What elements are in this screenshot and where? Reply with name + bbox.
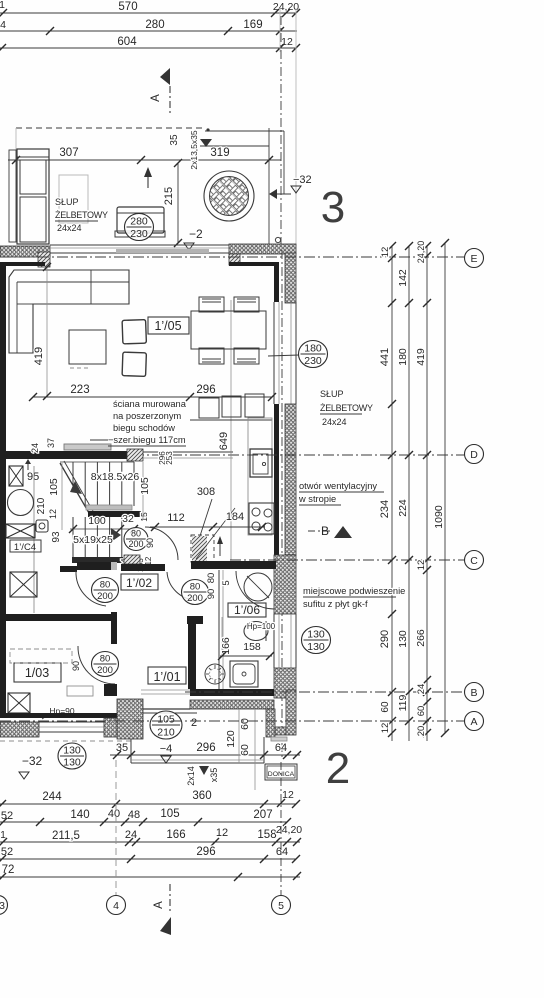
left wall — [0, 264, 6, 715]
svg-text:158: 158 — [257, 829, 276, 841]
dining chair top-left — [199, 297, 224, 312]
terrace pier bottom hatch — [275, 727, 286, 735]
svg-text:2: 2 — [191, 717, 197, 729]
right wall mid inner leaf — [274, 404, 279, 555]
kitchen cooktop — [249, 503, 274, 534]
svg-text:64: 64 — [276, 846, 288, 858]
dining table — [191, 311, 266, 349]
dim chain 280 169 — [0, 30, 297, 32]
drain circle corner — [275, 237, 280, 242]
svg-text:419: 419 — [33, 347, 45, 365]
terrace door size 105/210 — [150, 711, 182, 739]
svg-text:3: 3 — [0, 900, 5, 912]
bottom wall hatch band right — [190, 700, 274, 709]
hall top wall right piece — [121, 564, 165, 571]
svg-text:105: 105 — [48, 478, 60, 496]
svg-text:234: 234 — [379, 500, 391, 518]
svg-text:210: 210 — [157, 727, 175, 739]
dim column 142 180 224 130 119 — [408, 246, 410, 741]
svg-text:296: 296 — [196, 384, 215, 396]
svg-text:4: 4 — [0, 19, 6, 31]
svg-text:52: 52 — [1, 810, 13, 822]
dim column 24 20 419 12 266 24 60 20 — [426, 246, 428, 741]
stair direction arrow upper — [70, 481, 82, 494]
hall top wall mid piece — [77, 562, 111, 570]
svg-text:24x24: 24x24 — [57, 223, 82, 233]
svg-text:95: 95 — [27, 471, 39, 483]
hall right wall — [188, 624, 196, 689]
door circle 80/200 stairs — [124, 528, 148, 551]
svg-text:207: 207 — [253, 809, 272, 821]
bottom wall hatch left — [0, 722, 39, 737]
terrace door threshold lines — [141, 689, 190, 691]
svg-text:8x18.5x26: 8x18.5x26 — [91, 471, 140, 483]
svg-text:B: B — [321, 524, 329, 538]
arrow terrace right — [269, 189, 277, 199]
svg-text:604: 604 — [117, 36, 137, 48]
terrace pier inner hatch — [266, 709, 275, 737]
svg-text:80: 80 — [131, 529, 141, 539]
dim line 223 296 — [33, 396, 272, 398]
stair direction arrow lower — [111, 528, 121, 542]
grid 5 axis lower — [280, 762, 282, 895]
grid B axis — [185, 691, 464, 693]
svg-text:130: 130 — [307, 629, 325, 641]
svg-text:158: 158 — [243, 641, 261, 653]
xbox 1/03 — [8, 693, 30, 713]
dim 166 — [221, 617, 223, 655]
svg-text:24,20: 24,20 — [416, 241, 426, 264]
svg-text:200: 200 — [97, 591, 113, 602]
coffee table — [69, 330, 106, 364]
svg-text:12: 12 — [416, 560, 427, 571]
grid bubble A — [465, 712, 484, 731]
svg-text:Hp=100: Hp=100 — [247, 622, 276, 631]
svg-text:119: 119 — [397, 694, 409, 711]
grid bubble 3 partial — [0, 896, 8, 915]
terrace dim line bottom — [110, 754, 300, 756]
grid D axis — [0, 454, 464, 456]
svg-text:A: A — [470, 716, 477, 728]
svg-text:93: 93 — [51, 531, 62, 543]
room 1/03 right wall lower — [104, 684, 117, 696]
svg-text:169: 169 — [243, 19, 262, 31]
section marker A top — [160, 68, 170, 85]
svg-text:3: 3 — [321, 183, 345, 232]
svg-text:360: 360 — [192, 790, 211, 802]
door arc stairs — [145, 527, 178, 560]
svg-text:−szer.biegu 117cm: −szer.biegu 117cm — [108, 435, 186, 445]
right wall bath window — [273, 614, 275, 668]
room label 1'/02 — [121, 574, 158, 590]
radiator 1/03 — [67, 686, 93, 696]
door arc 1'02 left — [76, 571, 106, 606]
dim chain 604 12 — [0, 47, 297, 49]
grid bubble C — [465, 551, 484, 570]
svg-text:biegu schodów: biegu schodów — [113, 423, 175, 433]
svg-text:80: 80 — [206, 573, 217, 584]
svg-text:180: 180 — [397, 348, 409, 366]
svg-text:90: 90 — [206, 589, 217, 600]
room label 1'/01 — [148, 667, 186, 684]
svg-text:12: 12 — [380, 247, 391, 258]
svg-text:35: 35 — [169, 134, 180, 146]
stair wall — [0, 451, 127, 459]
svg-text:2x14: 2x14 — [186, 766, 196, 786]
grid 4 axis lower — [115, 760, 117, 895]
svg-text:266: 266 — [415, 629, 427, 647]
svg-text:90: 90 — [71, 661, 81, 671]
top wall right pier hatched — [229, 244, 296, 254]
svg-text:253: 253 — [165, 451, 174, 465]
kitchen unit xbox mid — [6, 524, 35, 538]
svg-text:296: 296 — [196, 742, 215, 754]
svg-text:−4: −4 — [160, 743, 173, 755]
grid E axis — [0, 256, 464, 258]
svg-text:105: 105 — [160, 808, 179, 820]
bottom wall hatch mid — [104, 718, 121, 737]
sofa corner — [9, 270, 129, 353]
svg-text:215: 215 — [163, 187, 175, 205]
room 1/03 top wall — [0, 614, 111, 621]
svg-text:1090: 1090 — [433, 505, 445, 529]
door circle 80/200 c — [92, 652, 119, 677]
svg-text:SŁUP: SŁUP — [55, 197, 79, 207]
svg-text:308: 308 — [197, 486, 215, 498]
grid bubble 5 — [272, 896, 291, 915]
bath left wall lines — [218, 570, 220, 695]
kitchen counter right — [248, 418, 272, 535]
room label 1/03 — [14, 663, 61, 682]
kitchen sink round — [8, 490, 34, 516]
column outline — [59, 175, 88, 223]
svg-text:1’/05: 1’/05 — [154, 319, 181, 333]
svg-text:12: 12 — [216, 827, 228, 839]
top wall left pier corner block — [38, 252, 50, 267]
grid C axis — [230, 559, 464, 561]
svg-text:5: 5 — [278, 900, 284, 912]
svg-text:80: 80 — [100, 654, 111, 665]
svg-text:105: 105 — [157, 714, 175, 726]
svg-text:otwór wentylacyjny: otwór wentylacyjny — [299, 481, 377, 491]
svg-text:12: 12 — [48, 509, 58, 519]
bottom wall inner black — [0, 713, 121, 718]
dim column 1090 — [444, 243, 446, 733]
svg-text:5: 5 — [221, 580, 232, 585]
svg-text:12: 12 — [281, 36, 293, 48]
dim chain 211,5 24 166 12 158 24 20 — [0, 841, 300, 843]
svg-text:290: 290 — [379, 630, 391, 648]
dining chair bottom-right — [234, 348, 259, 364]
svg-text:280: 280 — [130, 216, 148, 228]
door size 280/230 — [125, 214, 154, 241]
svg-text:120: 120 — [225, 730, 237, 748]
stair dim line 100 32 — [70, 528, 137, 530]
svg-text:130: 130 — [307, 641, 325, 653]
dim column 441 234 290 — [391, 246, 393, 741]
svg-text:60: 60 — [239, 718, 251, 730]
svg-text:296: 296 — [196, 846, 215, 858]
svg-text:na poszerzonym: na poszerzonym — [113, 411, 181, 421]
svg-text:319: 319 — [210, 147, 229, 159]
svg-text:200: 200 — [97, 665, 113, 676]
hall bottom wall — [190, 689, 274, 696]
svg-text:419: 419 — [415, 348, 427, 366]
svg-text:230: 230 — [304, 355, 322, 367]
kitchen unit xbox low — [10, 572, 37, 597]
grid bubble E — [465, 249, 484, 268]
svg-text:15: 15 — [139, 512, 149, 522]
kitchen unit xbox top — [9, 466, 23, 486]
hatch block above 1'02 — [124, 555, 140, 564]
terrace right boundary — [268, 128, 270, 246]
dim 649 line — [230, 300, 232, 560]
svg-text:52: 52 — [1, 846, 13, 858]
wc — [230, 661, 258, 687]
top wall left pier hatched — [0, 246, 50, 257]
door arc bath — [167, 572, 196, 600]
door circle 80/200 a — [92, 578, 119, 603]
window sill bar gray — [116, 249, 209, 253]
dim chain 52 140 40 48 105 207 — [0, 821, 287, 823]
svg-text:223: 223 — [70, 384, 89, 396]
pillow 1 — [122, 320, 146, 344]
svg-text:ŻELBETOWY: ŻELBETOWY — [320, 403, 373, 413]
pillow 2 — [122, 352, 146, 376]
hall top wall left piece — [60, 566, 77, 572]
svg-text:1’/06: 1’/06 — [234, 603, 260, 617]
svg-text:142: 142 — [397, 269, 409, 287]
svg-text:w stropie: w stropie — [298, 494, 336, 504]
svg-text:72: 72 — [2, 864, 15, 876]
svg-text:307: 307 — [59, 147, 78, 159]
room label 1'/06 — [228, 603, 266, 617]
stair wall thin extension — [143, 451, 233, 453]
svg-text:2x13,5x35: 2x13,5x35 — [189, 130, 199, 169]
svg-text:570: 570 — [118, 1, 137, 13]
grid 5 axis dash-dot upper — [280, 16, 282, 248]
svg-text:1’/C4: 1’/C4 — [14, 542, 36, 553]
stair cut diagonal — [60, 463, 89, 513]
top wall window — [50, 244, 229, 246]
svg-text:−2: −2 — [189, 227, 203, 241]
svg-text:1: 1 — [0, 0, 5, 11]
svg-text:24: 24 — [416, 684, 427, 695]
section marker A bottom — [169, 884, 171, 914]
hall right wall top L — [187, 616, 203, 624]
svg-text:ŻELBETOWY: ŻELBETOWY — [55, 210, 108, 220]
right wall bottom pier — [274, 668, 296, 698]
kitchen sink unit — [250, 449, 272, 477]
svg-text:90: 90 — [145, 538, 155, 548]
svg-text:x35: x35 — [209, 768, 219, 783]
svg-text:−32: −32 — [293, 174, 312, 186]
svg-text:200: 200 — [187, 593, 203, 604]
svg-text:C: C — [470, 555, 478, 567]
stair upper treads — [72, 462, 74, 506]
right wall axis dashes — [281, 250, 283, 758]
washer circle — [205, 664, 225, 684]
right wall bath pier — [274, 555, 296, 614]
grid bubble D — [465, 445, 484, 464]
stair dim 105 right — [142, 462, 144, 520]
svg-text:A: A — [153, 901, 165, 909]
svg-text:20: 20 — [416, 726, 427, 737]
door circle 80/200 b — [182, 580, 209, 605]
room 1/03 right wall upper — [111, 612, 117, 644]
svg-text:E: E — [470, 253, 477, 265]
svg-text:D: D — [470, 449, 478, 461]
svg-text:140: 140 — [70, 809, 89, 821]
right wall window 180/230 — [273, 302, 275, 404]
wardrobe dashed — [10, 649, 72, 663]
svg-text:60: 60 — [416, 706, 427, 717]
dim chain 244 360 12 — [0, 803, 296, 805]
svg-text:1’/02: 1’/02 — [126, 576, 152, 590]
guide line right x296 — [295, 8, 297, 246]
terrace corner hatch left — [117, 699, 143, 739]
svg-text:210: 210 — [36, 497, 47, 514]
donica planter — [265, 764, 297, 780]
dim 419 — [46, 267, 48, 396]
terrace dim line 307 319 — [8, 159, 281, 161]
svg-text:12: 12 — [380, 723, 391, 734]
svg-text:649: 649 — [218, 432, 230, 450]
grid bubble B — [465, 683, 484, 702]
svg-text:64: 64 — [275, 742, 287, 754]
svg-text:105: 105 — [139, 477, 151, 495]
svg-text:280: 280 — [145, 19, 164, 31]
section marker B — [308, 530, 333, 532]
svg-text:184: 184 — [226, 511, 244, 523]
below wall dashed — [0, 740, 131, 742]
dining chair bottom-left — [199, 348, 224, 364]
terrace slab — [130, 739, 132, 763]
stair mid landing gray — [86, 505, 132, 510]
svg-text:244: 244 — [42, 791, 62, 803]
svg-text:35: 35 — [116, 742, 128, 754]
landing edge bar — [64, 444, 111, 450]
top wall inner leaf right L — [229, 262, 279, 266]
grid bubble 4 — [107, 896, 126, 915]
door arc 1/03 — [78, 646, 115, 684]
svg-text:80: 80 — [100, 580, 111, 591]
top wall inner leaf left — [0, 262, 45, 266]
dim 120 60 60 — [238, 709, 240, 763]
room label 1'/05 — [148, 317, 189, 334]
stair mid bar — [88, 511, 141, 517]
stair lower bottom bar — [72, 557, 123, 563]
kitchen counter front edge — [33, 466, 35, 613]
ceiling size 130/130 — [302, 627, 331, 654]
svg-text:24,20: 24,20 — [276, 824, 302, 836]
stair lower treads — [72, 517, 74, 557]
right wall outer hatch corner — [285, 253, 296, 303]
terrace door left — [17, 149, 49, 244]
terrace pier outer hatch — [286, 690, 296, 735]
bottom wall window 1/03 — [39, 721, 104, 723]
round table hatched — [204, 171, 254, 221]
svg-text:40: 40 — [108, 808, 120, 820]
vent duct in ceiling — [191, 535, 214, 562]
stair wall hatch end — [127, 449, 143, 461]
svg-text:1’/01: 1’/01 — [153, 670, 180, 684]
svg-text:112: 112 — [167, 512, 185, 524]
dim 215 vertical — [177, 163, 179, 243]
svg-text:32: 32 — [122, 513, 134, 525]
svg-text:230: 230 — [130, 228, 148, 240]
entrance arrow — [147, 175, 149, 188]
svg-text:B: B — [470, 687, 477, 699]
svg-text:SŁUP: SŁUP — [320, 389, 344, 399]
dim chain 52 296 64 — [0, 858, 296, 860]
svg-text:48: 48 — [128, 809, 140, 821]
washbasin bath — [244, 622, 268, 641]
svg-text:224: 224 — [397, 499, 409, 517]
svg-text:A: A — [150, 94, 162, 102]
svg-text:37: 37 — [46, 438, 56, 448]
kitchen upper cabinets — [190, 419, 272, 421]
terrace pier sill — [271, 737, 287, 741]
terrace left boundary — [15, 128, 17, 150]
right wall mid outer hatch — [285, 404, 296, 555]
terrace edge dashed — [16, 127, 205, 129]
guide line right x280 — [279, 8, 281, 52]
dim line 112 184 — [150, 526, 265, 528]
top wall right pier corner block — [229, 254, 240, 265]
svg-text:130: 130 — [63, 745, 81, 757]
dining chair top-right — [234, 297, 259, 312]
stair dim 105 left — [61, 463, 63, 530]
svg-text:130: 130 — [63, 757, 81, 769]
svg-text:60: 60 — [239, 744, 251, 756]
armchair — [117, 207, 164, 233]
svg-text:441: 441 — [379, 348, 391, 366]
window size 180/230 — [268, 355, 299, 356]
svg-text:130: 130 — [397, 630, 409, 648]
svg-text:211,5: 211,5 — [52, 830, 80, 842]
shower corner — [236, 571, 274, 609]
svg-text:1/03: 1/03 — [25, 666, 49, 680]
svg-text:miejscowe podwieszenie: miejscowe podwieszenie — [303, 586, 405, 596]
room label 1'/C4 — [10, 540, 41, 552]
svg-text:2: 2 — [326, 744, 350, 793]
dim chain 72 — [0, 876, 300, 878]
dim chain 570 / 24,20 — [0, 12, 296, 14]
svg-text:24x24: 24x24 — [322, 417, 347, 427]
svg-text:166: 166 — [166, 829, 185, 841]
bath top wall piece — [191, 561, 276, 569]
svg-text:sufitu z płyt gk-f: sufitu z płyt gk-f — [303, 599, 368, 609]
circle 130/130 bottom — [58, 743, 86, 769]
kitchen small square — [36, 520, 48, 532]
svg-text:80: 80 — [190, 582, 201, 593]
terrace slide door — [143, 708, 190, 710]
svg-text:180: 180 — [304, 343, 322, 355]
svg-text:−32: −32 — [22, 754, 43, 768]
stair cut mask — [56, 462, 91, 515]
svg-text:5x19x25: 5x19x25 — [73, 534, 113, 546]
svg-text:200: 200 — [128, 539, 143, 549]
svg-text:60: 60 — [380, 701, 391, 713]
svg-text:100: 100 — [88, 515, 106, 527]
svg-text:ściana murowana: ściana murowana — [113, 399, 187, 409]
svg-text:4: 4 — [113, 900, 119, 912]
terrace step lines — [205, 130, 284, 132]
svg-text:24: 24 — [30, 443, 40, 453]
grid A axis — [0, 720, 464, 722]
